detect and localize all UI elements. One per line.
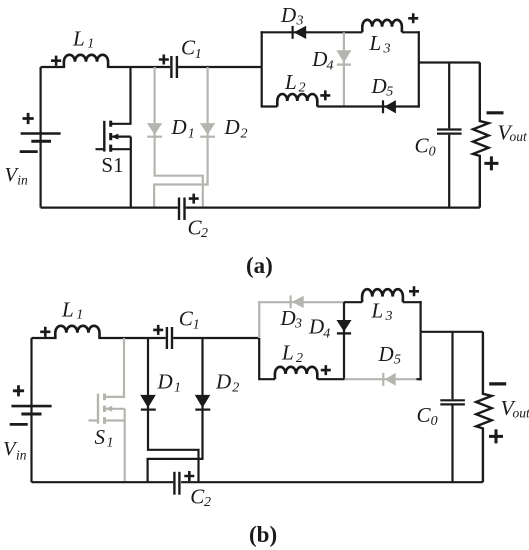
svg-text:in: in: [16, 448, 27, 463]
plus sign C1 (a): [159, 55, 169, 65]
loop box bottom branch right part with D5 (a): [317, 105, 420, 107]
loop box bottom branch grey with D5 (b): [345, 378, 417, 380]
wire L1 to C1 (b): [99, 337, 166, 339]
svg-text:C: C: [417, 403, 432, 427]
loop box top branch left part with D3 (a): [261, 31, 363, 33]
capacitor C1 (b): [167, 327, 172, 349]
loop box bottom branch black hook (b): [417, 378, 422, 380]
wire top-left (b): [32, 337, 57, 339]
plus sign L2 (a): [320, 90, 330, 100]
svg-text:D: D: [308, 315, 324, 339]
svg-text:C: C: [415, 134, 430, 158]
diode D3 (a): [293, 26, 307, 39]
svg-text:D: D: [280, 3, 296, 27]
bottom rail left segment (b): [32, 481, 174, 483]
svg-text:L: L: [61, 298, 74, 322]
svg-text:in: in: [17, 173, 28, 188]
label C1 (a): [181, 36, 202, 62]
svg-text:4: 4: [323, 326, 330, 341]
plus sign L2 (b): [321, 365, 331, 375]
plus sign L3 (a): [408, 13, 418, 23]
label C0 (a): [415, 134, 436, 160]
svg-text:1: 1: [193, 317, 200, 332]
label L1 (a): [72, 26, 94, 51]
svg-text:D: D: [171, 115, 187, 139]
label L1 (b): [61, 298, 83, 323]
transistor S1 source wire to rail (b) grey: [124, 409, 126, 482]
loop box bottom branch left part (a): [261, 105, 278, 107]
label D4 (a): [311, 47, 333, 73]
label D1 (b): [157, 370, 182, 396]
svg-text:5: 5: [394, 353, 401, 368]
svg-text:D: D: [215, 370, 231, 394]
plus sign Vout (b): [489, 429, 503, 443]
diode D5 (a): [383, 100, 396, 113]
bottom rail left segment (a): [41, 207, 178, 209]
output wire (b): [421, 331, 483, 333]
svg-text:D: D: [280, 306, 296, 330]
label C0 (b): [417, 403, 438, 429]
plus sign C1 (b): [153, 325, 163, 335]
wire C1 to loop (a): [178, 66, 262, 68]
diode D1 (a) grey with wire to rail right of C2: [147, 67, 203, 208]
label L3 (a): [369, 31, 391, 57]
transistor S1 (a): [96, 121, 131, 152]
label D1 (a): [171, 115, 195, 141]
svg-text:out: out: [510, 129, 529, 144]
svg-text:3: 3: [385, 309, 393, 324]
svg-text:2: 2: [201, 226, 208, 241]
transistor S1 source wire to rail (a): [130, 137, 132, 208]
svg-text:1: 1: [195, 47, 202, 62]
capacitor C1 (a): [171, 56, 177, 78]
plus sign C2 (a): [189, 194, 199, 204]
svg-text:3: 3: [383, 42, 391, 57]
diode D4 (b) with vertical wire: [337, 302, 352, 379]
svg-text:C: C: [181, 36, 196, 60]
label D2 (a): [224, 115, 248, 141]
svg-text:S1: S1: [101, 153, 123, 177]
loop box top branch right part (a): [402, 31, 420, 33]
svg-text:2: 2: [299, 81, 306, 96]
svg-text:L: L: [284, 70, 297, 94]
svg-text:2: 2: [232, 381, 239, 396]
label D3 (a): [280, 3, 304, 29]
plus sign L1 (b): [40, 327, 50, 337]
diode D2 (b) with wire to rail left of C2: [148, 338, 211, 482]
transistor S1 (b) grey: [89, 394, 125, 424]
wire C1 to loop (b): [173, 337, 259, 339]
svg-text:1: 1: [107, 436, 114, 451]
diode D1 (b) with wire to rail right of C2: [140, 338, 198, 482]
diode D2 (a) grey with wire to rail left of C2: [154, 67, 215, 208]
plus sign L3 (b): [409, 286, 419, 296]
wire L1 to C1 (a): [107, 66, 170, 68]
bottom rail right segment (b): [181, 481, 483, 483]
transistor S1 drain wire (a): [111, 67, 131, 124]
diode D4 (a) grey with vertical wire: [336, 32, 351, 106]
svg-text:1: 1: [87, 36, 94, 51]
svg-text:1: 1: [188, 126, 195, 141]
label C1 (b): [179, 307, 200, 333]
label S1 (b): [95, 425, 114, 451]
svg-text:out: out: [513, 406, 529, 421]
svg-text:L: L: [371, 299, 384, 323]
resistor Vout (a): [473, 63, 489, 208]
loop box top branch right part (b): [403, 301, 422, 303]
plus sign Vout (a): [484, 156, 498, 170]
label L3 (b): [371, 299, 393, 325]
loop box bottom branch black left (b): [258, 378, 275, 380]
wire top-left (a): [41, 66, 65, 68]
svg-text:D: D: [371, 74, 387, 98]
plus sign C2 (b): [184, 471, 194, 481]
inductor L1 (a): [64, 55, 108, 68]
label Vout (a): [498, 121, 529, 145]
loop box right vertical (a): [418, 31, 420, 107]
svg-text:3: 3: [296, 14, 304, 29]
loop box top branch black part (b): [344, 301, 362, 303]
capacitor C0 (a): [437, 63, 462, 208]
svg-text:4: 4: [327, 58, 334, 73]
battery Vin (b): [11, 338, 51, 482]
minus sign Vout (a): [487, 111, 504, 114]
label L2 (a): [284, 70, 306, 96]
resistor Vout (b): [476, 332, 492, 482]
svg-text:L: L: [369, 31, 382, 55]
battery minus sign (b): [10, 423, 28, 426]
inductor L3 (b): [362, 289, 403, 302]
svg-text:0: 0: [429, 144, 436, 159]
inductor L1 (b): [55, 326, 99, 339]
svg-text:D: D: [157, 370, 173, 394]
label D5 (b): [378, 342, 402, 368]
loop box top branch grey with D3 (b): [258, 301, 344, 303]
svg-text:(b): (b): [249, 522, 277, 547]
svg-text:1: 1: [174, 381, 181, 396]
svg-text:D: D: [224, 115, 240, 139]
loop box right vertical black (b): [420, 301, 422, 380]
inductor L2 (b): [275, 367, 317, 379]
minus sign Vout (b): [489, 382, 506, 385]
loop box left vertical (a): [261, 31, 263, 106]
capacitor C2 (a): [179, 198, 185, 221]
svg-text:3: 3: [294, 317, 302, 332]
label C2 (b): [190, 485, 211, 511]
capacitor C0 (b): [440, 332, 465, 482]
svg-text:D: D: [378, 342, 394, 366]
battery plus sign (a): [23, 113, 34, 124]
svg-text:5: 5: [386, 85, 393, 100]
label L2 (b): [281, 341, 303, 367]
plus sign L1 (a): [51, 56, 61, 66]
inductor L3 (a): [362, 20, 402, 32]
svg-text:L: L: [72, 26, 85, 50]
battery minus sign (a): [20, 150, 38, 153]
diode D3 (b) grey: [291, 295, 304, 308]
label Vin (b): [3, 438, 27, 463]
label D2 (b): [215, 370, 239, 396]
transistor S1 drain wire (b) grey: [105, 338, 125, 397]
inductor L2 (a): [277, 94, 317, 107]
loop box left vertical upper grey (b): [258, 301, 260, 338]
svg-text:0: 0: [431, 414, 438, 429]
svg-text:2: 2: [204, 495, 211, 510]
svg-text:S: S: [95, 425, 106, 449]
diode D5 (b) grey: [383, 373, 395, 386]
bottom rail right segment (a): [186, 207, 480, 209]
label D3 (b): [280, 306, 303, 332]
battery Vin (a): [21, 67, 61, 208]
svg-text:D: D: [311, 47, 327, 71]
label Vout (b): [501, 396, 529, 421]
svg-text:2: 2: [296, 351, 303, 366]
output wire (a): [419, 61, 480, 63]
capacitor C2 (b): [174, 472, 179, 495]
loop box bottom branch middle black (b): [317, 378, 344, 380]
loop box left vertical lower black (b): [258, 338, 260, 379]
svg-text:C: C: [179, 307, 194, 331]
label D5 (a): [371, 74, 394, 100]
battery plus sign (b): [13, 385, 24, 396]
svg-text:(a): (a): [246, 253, 273, 278]
label Vin (a): [5, 164, 29, 188]
svg-text:L: L: [281, 341, 294, 365]
svg-text:2: 2: [241, 126, 248, 141]
label C2 (a): [188, 216, 209, 242]
label D4 (b): [308, 315, 330, 342]
svg-text:1: 1: [76, 308, 83, 323]
